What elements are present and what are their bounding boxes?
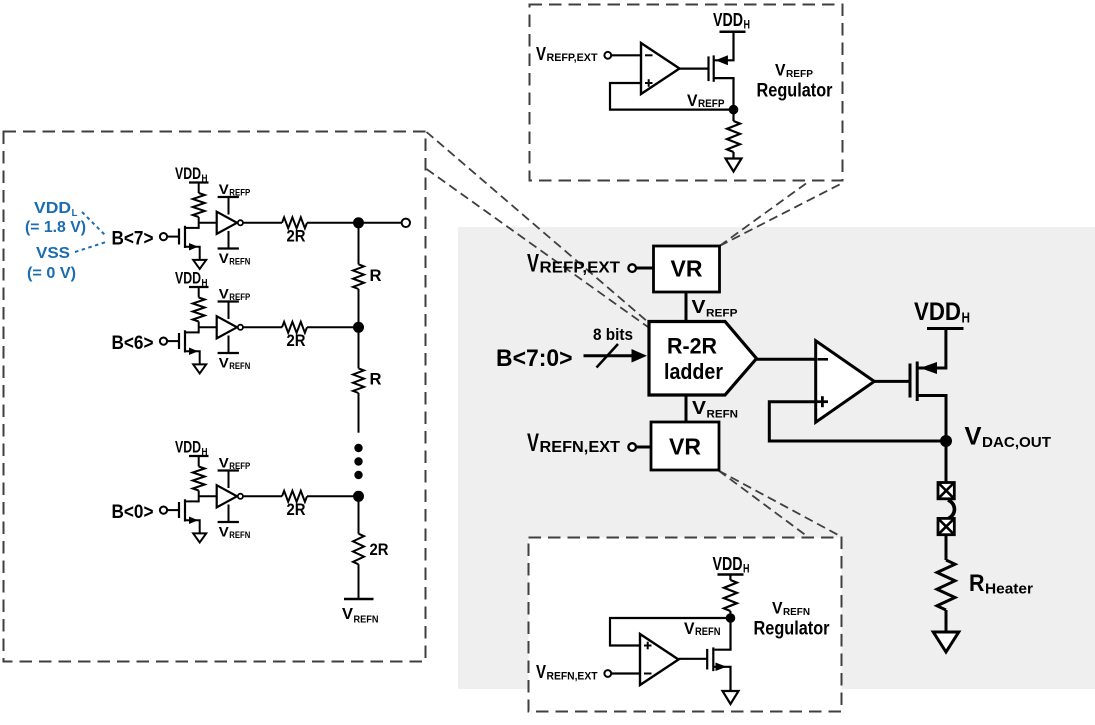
wire 2R to ladder node (M6 cell) [307,326,359,328]
inverter output bubble (M0 cell) [238,494,243,499]
svg-text:REFP: REFP [698,98,725,110]
op-amp U_P [641,43,680,94]
wire terminal to gate (M7) [167,236,178,238]
wire op-amp output to pass transistor gate [680,67,709,69]
svg-text:V: V [687,91,698,110]
wire resistor to drain junction (M6 cell) [198,322,200,334]
wire pad 2 to heater resistor [945,535,948,560]
wire buffer output to 2R resistor (M0 cell) [243,495,282,497]
bus width tick (8 bits slash) [597,344,619,368]
svg-text:Regulator: Regulator [754,618,830,640]
svg-text:2R: 2R [287,500,306,519]
svg-text:V: V [684,619,695,638]
wire R to ellipsis [358,393,360,433]
wire terminal to gate (M6) [167,340,178,342]
wire B<0> node to 2R termination [358,497,360,534]
pass transistor MN source wire to ground [713,667,730,691]
svg-text:H: H [743,564,750,576]
voltage regulator block VR (bottom) [651,422,719,470]
svg-text:V: V [219,181,230,197]
feedback wire to non-inverting input [610,83,734,110]
svg-text:H: H [962,310,971,327]
pass transistor MP source wire to VDD [714,32,734,61]
svg-text:B<7>: B<7> [112,228,154,250]
leader line from VSS to B<7> [75,242,106,252]
feedback wire from V_DAC,OUT to op-amp + input [769,402,946,441]
svg-text:VDD: VDD [713,10,743,30]
wire ladder to VR (bottom) [685,395,688,422]
wire terminal to op-amp inverting input [611,54,641,56]
VDD_H bar (main) [927,327,964,330]
wire resistor to drain junction (M7 cell) [198,217,200,229]
svg-text:V: V [219,524,230,540]
resistor 2R termination [353,534,364,565]
inverter buffer (M0 cell) [217,485,237,507]
output transistor source wire to VDD [917,329,946,369]
wire ladder top node to output terminal [364,222,402,224]
wire terminal to op-amp inverting input (N regulator) [611,672,640,674]
svg-text:V: V [219,250,230,266]
load resistor (regulator) [732,110,734,121]
svg-text:V: V [219,455,230,471]
svg-text:2R: 2R [287,227,306,246]
resistor 2R (M7 cell) [282,217,307,228]
svg-text:B<6>: B<6> [112,332,154,354]
svg-text:R: R [370,370,382,389]
svg-text:(= 1.8 V): (= 1.8 V) [25,219,86,236]
output op-amp U1 [816,341,875,422]
pull-up resistor (M6 cell) [193,298,205,322]
resistor R (top) [353,264,364,289]
wire op-amp output to MN gate [679,658,708,660]
wire buffer output to 2R resistor (M7 cell) [243,222,282,224]
input terminal B&lt;6&gt; [160,338,167,345]
op-amp U_N inverting (-) mark [644,673,652,675]
wire buffer output to 2R resistor (M6 cell) [243,326,282,328]
svg-text:VDD: VDD [713,554,743,574]
wire resistor to ground (main) [945,610,948,632]
svg-text:V: V [775,61,786,80]
buffer V_REFN rail (M0 cell) [228,505,230,523]
transistor M7 channel bar [184,226,186,248]
output transistor source arrow (PMOS) [920,362,937,374]
svg-text:V: V [342,606,353,623]
ground symbol (M7 cell) [193,260,206,269]
wire ladder output to op-amp [756,358,816,361]
svg-text:REFN: REFN [354,614,379,626]
transistor M6 channel bar [184,330,186,352]
output transistor gate bar [909,364,912,398]
ladder node (M7 cell) [353,217,364,228]
ground symbol (M6 cell) [193,364,206,373]
svg-text:DAC,OUT: DAC,OUT [982,434,1051,451]
wire op-amp output to output PMOS gate [874,380,910,383]
svg-text:R: R [370,266,382,285]
wire node to bond pad 1 [945,441,948,482]
bond pad 2 [938,518,954,534]
ladder node (M6 cell) [353,322,364,333]
transistor M6 source wire [185,351,200,364]
voltage regulator block VR (top) [654,246,720,292]
resistor R (second) [358,328,360,369]
transistor M6 source arrow [189,347,198,355]
transistor M7 gate bar [178,229,180,245]
svg-text:V: V [772,599,783,618]
transistor M7 source wire [185,247,200,260]
svg-text:VDD: VDD [175,164,201,183]
svg-text:R-2R: R-2R [667,334,717,359]
ground symbol (regulator) [726,159,742,172]
wire V_REFP,EXT to VR (top) [636,267,654,270]
op-amp U1 inverting (-) mark [818,358,829,361]
V_REFN node dot (N regulator) [726,613,736,623]
svg-text:V: V [692,297,706,317]
pass transistor MP channel bar [713,55,715,81]
buffer V_REFN rail (M6 cell) [228,336,230,354]
pass transistor MN source arrow (NMOS) [716,663,727,672]
pass transistor MP source arrow (PMOS) [715,55,728,65]
transistor M0 source wire [185,520,200,533]
wire 2R to V_REFN rail [358,564,360,599]
buffer V_REFN rail (M7 cell) [228,231,230,249]
svg-text:REFP,EXT: REFP,EXT [540,260,621,277]
chip background region [458,227,1095,689]
svg-text:REFP: REFP [229,188,251,199]
input terminal B&lt;0&gt; [160,507,167,514]
wire V_REFN,EXT to VR (bottom) [636,446,651,449]
transistor M0 gate bar [178,502,180,518]
heater resistor R_Heater [937,560,955,610]
V_REFP regulator detail box [530,5,843,181]
VDD_H supply bar (M6 cell) [189,286,209,288]
ground symbol (N regulator) [723,691,739,704]
wire terminal to gate (M0) [167,509,178,511]
pass transistor MN channel bar [712,647,714,671]
ground symbol (main) [933,632,959,652]
transistor M6 drain wire [185,331,199,333]
wire junction to buffer input (M7 cell) [199,222,217,224]
pass transistor MN drain wire [715,618,731,650]
V_REFP node dot (regulator) [729,105,739,115]
leader line from VDD_L to B<7> [82,212,106,236]
svg-text:REFN: REFN [229,257,250,268]
zoom wedge from VR (top) to regulator box (left line) [720,184,807,247]
V_REFP,EXT input terminal (regulator) [604,52,611,59]
pass transistor MP gate bar [707,56,709,81]
svg-text:REFN,EXT: REFN,EXT [547,670,598,682]
svg-text:VDD: VDD [175,438,201,457]
svg-text:VR: VR [669,434,701,460]
V_REFN,EXT terminal (main) [628,443,636,451]
feedback wire to non-inverting input (N regulator) [610,618,731,646]
pass transistor MN gate bar [706,649,708,670]
detail box: R-2R ladder internals [4,132,426,662]
ground symbol (M0 cell) [193,533,206,542]
VDD_H bar (regulator) [720,31,746,34]
op-amp U_P inverting (-) mark [645,54,653,56]
svg-text:Regulator: Regulator [757,80,833,102]
wire R to middle node [358,289,360,328]
svg-text:REFN: REFN [707,409,739,421]
bus wire with arrow into ladder [584,354,639,357]
inverter output bubble (M7 cell) [238,220,243,225]
zoom wedge line from detail box to R-2R ladder (lower) [427,169,649,327]
inverter buffer (M7 cell) [217,212,237,234]
svg-text:VDD: VDD [914,298,961,326]
svg-text:V: V [219,355,230,371]
wire 2R to ladder node (M7 cell) [307,222,359,224]
buffer V_REFP rail (M6 cell) [228,302,230,320]
svg-text:V: V [692,398,706,418]
svg-text:REFN: REFN [229,530,250,541]
transistor M0 drain wire [185,500,199,502]
resistor 2R (M6 cell) [282,322,307,333]
wire VDD bar to pull-up resistor (M6 cell) [198,287,200,298]
wire node to resistor R (top) [358,223,360,264]
svg-text:REFN,EXT: REFN,EXT [540,439,621,456]
transistor M7 drain wire [185,227,199,229]
transistor M6 gate bar [178,333,180,349]
wire VR (top) to R-2R ladder [685,292,688,321]
zoom wedge from VR (bottom) to regulator box (right line) [719,471,842,537]
zoom wedge from VR (bottom) to regulator box (left line) [719,471,808,537]
svg-text:R: R [969,570,985,597]
op-amp U_N [640,634,679,685]
svg-text:Heater: Heater [985,582,1033,598]
svg-text:2R: 2R [370,540,389,559]
V_REFP,EXT terminal (main) [628,264,636,272]
V_REFN regulator detail box [529,538,842,712]
svg-text:ladder: ladder [664,359,723,384]
svg-text:(= 0 V): (= 0 V) [27,265,76,282]
zoom wedge from VR (top) to regulator box (right line) [720,184,842,247]
svg-text:VDD: VDD [175,269,201,288]
svg-text:V: V [527,250,539,278]
svg-text:B<7:0>: B<7:0> [496,345,573,372]
wire VDD bar to pull-up resistor (M0 cell) [198,456,200,467]
ladder output terminal [402,219,410,227]
transistor M0 channel bar [184,499,186,521]
svg-text:REFP: REFP [229,292,251,303]
buffer V_REFP rail (M0 cell) [228,471,230,489]
pull-up resistor (M7 cell) [193,193,205,217]
ladder node (M0 cell) [353,491,364,502]
wire resistor to ground (regulator) [732,152,734,159]
V_REFN,EXT input terminal (N regulator) [604,670,611,677]
inverter output bubble (M6 cell) [238,325,243,330]
pull-up resistor (M0 cell) [193,467,205,491]
bond pad 1 [938,483,954,499]
transistor M0 source arrow [189,516,198,524]
svg-text:VDD: VDD [34,200,71,217]
load resistor (N regulator) [729,575,731,581]
svg-text:B<0>: B<0> [112,501,154,523]
bus arrowhead [632,349,648,363]
bond wire arc between pads [948,500,954,519]
op-amp U_N non-inverting (+) mark [644,645,652,647]
svg-text:V: V [527,429,539,457]
ellipsis dots (ladder continues) [354,444,362,452]
V_DAC,OUT node [940,435,952,447]
resistor 2R (M0 cell) [282,491,307,502]
wire VDD bar to pull-up resistor (M7 cell) [198,183,200,194]
output transistor channel bar [916,362,919,402]
wire 2R to ladder node (M0 cell) [307,495,359,497]
svg-text:REFN: REFN [783,606,810,618]
V_REFN termination bar [344,598,374,601]
svg-text:L: L [72,207,79,219]
svg-text:REFP: REFP [786,68,813,80]
input terminal B&lt;7&gt; [160,233,167,240]
VDD_H bar (N regulator) [718,573,744,576]
VDD_H supply bar (M0 cell) [189,455,209,457]
svg-text:V: V [536,661,547,682]
R-2R ladder block [649,322,757,396]
svg-text:REFN: REFN [229,361,250,372]
wire resistor to drain junction (M0 cell) [198,491,200,503]
transistor M7 source arrow [189,243,198,251]
svg-text:8 bits: 8 bits [593,325,633,344]
svg-text:REFP: REFP [229,461,251,472]
svg-text:REFP,EXT: REFP,EXT [547,52,598,64]
op-amp U_P non-inverting (+) mark [645,82,653,84]
svg-text:V: V [219,286,230,302]
wire junction to buffer input (M0 cell) [199,495,217,497]
pass transistor MP drain wire [714,78,734,110]
buffer V_REFP rail (M7 cell) [228,197,230,215]
svg-text:REFN: REFN [695,626,721,638]
svg-text:VR: VR [671,256,703,282]
svg-text:2R: 2R [287,331,306,350]
svg-text:REFP: REFP [706,308,738,320]
zoom wedge line from detail box to R-2R ladder (upper) [427,132,649,322]
svg-text:VSS: VSS [36,245,70,262]
svg-text:H: H [744,20,751,32]
svg-text:V: V [965,423,982,451]
output transistor drain wire [917,396,946,442]
VDD_H supply bar (M7 cell) [189,181,209,183]
op-amp U1 non-inverting (+) mark [817,400,828,403]
wire junction to buffer input (M6 cell) [199,326,217,328]
svg-text:V: V [536,43,547,64]
inverter buffer (M6 cell) [217,316,237,338]
